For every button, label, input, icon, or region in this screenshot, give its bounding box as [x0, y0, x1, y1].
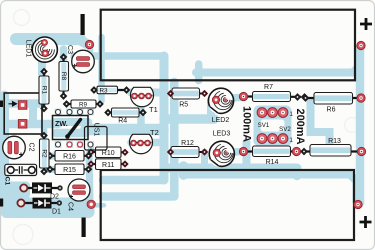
switch ZW lever — [68, 120, 81, 137]
resistor R9 — [63, 100, 104, 109]
wire central vertical — [160, 56, 169, 180]
wire ZW upper inner band — [55, 118, 88, 126]
svg-text:R4: R4 — [118, 118, 127, 125]
wire LED1 to R1 — [38, 54, 46, 74]
svg-text:ZW.: ZW. — [55, 119, 68, 128]
resistor R14 — [239, 146, 300, 166]
resistor R10 — [87, 147, 128, 158]
capacitor C3 — [72, 50, 95, 73]
connector X1 pad 2 — [18, 120, 27, 129]
wire ZW lower inner band — [56, 129, 86, 138]
svg-text:LED3: LED3 — [213, 131, 231, 138]
wire LED2 to R7 — [222, 97, 244, 99]
svg-text:R16: R16 — [63, 154, 76, 161]
capacitor C2 — [3, 136, 26, 159]
wire connector upper band — [8, 99, 42, 108]
resistor R12 — [167, 140, 208, 158]
relay K2 outline (bottom) — [101, 170, 354, 240]
watermark circle bottom-left — [13, 225, 33, 245]
svg-text:R2: R2 — [41, 149, 48, 158]
relay K1 outline (top) — [101, 10, 355, 81]
capacitor C4 — [68, 179, 90, 201]
diode D1 — [17, 198, 62, 209]
wire R6 branch down to R13 — [311, 101, 330, 147]
pad top right (plus) — [357, 41, 365, 49]
wire loop B in bottom relay — [103, 192, 172, 201]
resistor R3 — [90, 86, 130, 94]
wire R10 left stub — [88, 145, 94, 153]
resistor R7 — [239, 84, 308, 101]
svg-text:R14: R14 — [266, 159, 279, 166]
svg-text:LED1: LED1 — [25, 40, 32, 58]
wire top relay left edge stub — [90, 37, 102, 101]
diode D2 — [20, 182, 63, 193]
svg-text:R3: R3 — [99, 87, 108, 94]
resistor R1 (vertical) — [39, 68, 49, 113]
watermark circle top-left — [14, 10, 30, 26]
plus sign top right — [360, 18, 372, 30]
wire R2 top stub — [41, 124, 48, 136]
jumper bar bottom — [82, 218, 86, 238]
resistor R11 — [87, 159, 128, 170]
wire mid horizontal band — [164, 164, 297, 173]
svg-text:R7: R7 — [264, 84, 273, 91]
wire T1 stub — [131, 89, 162, 97]
connector X1 arrow — [9, 102, 17, 106]
wire ZW crossing band — [86, 124, 163, 136]
svg-text:LED2: LED2 — [212, 117, 230, 124]
wire bottom-left copper blob upper — [1, 182, 31, 199]
wire bottom band corner down — [350, 175, 357, 203]
pad bottom right (plus) — [354, 200, 362, 208]
svg-text:T2: T2 — [150, 128, 159, 137]
svg-text:US1: US1 — [93, 123, 100, 137]
SV copper block — [254, 106, 292, 147]
jumper bar top — [81, 14, 85, 35]
switch ZW bottom pins — [56, 142, 61, 147]
wire vertical from top relay to divider — [195, 64, 203, 81]
capacitor C1 — [5, 164, 37, 175]
wire connector lower band — [8, 120, 58, 129]
watermark circle right-middle — [345, 118, 360, 133]
resistor R16 — [46, 151, 92, 162]
pad right of C4 — [87, 200, 95, 208]
resistor R6 — [302, 93, 366, 114]
connector X1 pad 1 — [18, 101, 27, 110]
wire connector inner vertical — [29, 104, 37, 124]
ZW top pin pads copper squares — [55, 109, 94, 148]
svg-text:R9: R9 — [79, 102, 88, 109]
wire branch into bottom relay — [293, 168, 302, 176]
resistor R5 — [167, 88, 208, 109]
wire left edge vertical band — [0, 95, 9, 205]
header SV1 pads — [257, 108, 267, 118]
wire R8 top stub — [60, 49, 68, 60]
transistor T2 — [130, 134, 153, 153]
pad above C3 — [85, 40, 93, 48]
transistor T1 — [131, 87, 154, 106]
LED2 — [208, 88, 233, 113]
resistor R2 (vertical) — [40, 132, 50, 176]
left edge tick lower — [0, 199, 3, 207]
svg-text:C3: C3 — [66, 45, 73, 54]
svg-text:100mA: 100mA — [240, 106, 252, 142]
svg-text:200mA: 200mA — [294, 108, 306, 144]
svg-text:C4: C4 — [67, 202, 74, 211]
wire loop A in bottom relay — [103, 176, 164, 185]
wire V2 branch — [170, 82, 179, 197]
svg-text:R12: R12 — [181, 140, 194, 147]
resistor R13 — [300, 138, 366, 156]
svg-text:R11: R11 — [102, 162, 114, 169]
LED1 — [32, 37, 57, 62]
resistor R8 (vertical) — [59, 53, 69, 100]
wire C3 to top relay band — [74, 52, 163, 60]
wire bottom relay top band — [184, 171, 351, 179]
resistor R4 — [104, 108, 147, 125]
wire SV vertical feed — [243, 143, 251, 171]
svg-text:C1: C1 — [4, 176, 11, 185]
wire pad stub into bottom relay — [93, 203, 104, 208]
connector X1 outline — [4, 93, 42, 134]
wire R15 left stub — [46, 166, 56, 173]
svg-text:R5: R5 — [179, 102, 188, 109]
LED3 — [209, 141, 234, 166]
wire top relay right band — [196, 69, 353, 77]
IC US1 outline — [85, 127, 108, 151]
svg-text:R6: R6 — [327, 106, 336, 113]
left edge tick upper — [0, 101, 3, 108]
switch ZW outline — [53, 116, 89, 140]
svg-text:R1: R1 — [40, 86, 47, 95]
svg-text:T1: T1 — [149, 105, 158, 114]
svg-text:SV1: SV1 — [258, 122, 270, 129]
wire R12 right stub — [201, 152, 208, 166]
resistor R15 — [46, 164, 92, 175]
wire LED3 to R14 — [224, 152, 243, 153]
wire LED divider band — [164, 114, 214, 124]
wire right edge vertical band — [356, 47, 365, 203]
svg-text:R15: R15 — [63, 167, 76, 174]
wire bottom-left copper blob lower — [1, 198, 95, 219]
svg-text:SV2: SV2 — [279, 126, 291, 133]
wire R16 left stub — [46, 153, 56, 160]
wire LED2 pad stub down — [207, 100, 215, 120]
wire T1 to T2 vertical — [137, 93, 145, 143]
plus sign bottom right — [360, 216, 372, 228]
wire T2 stub — [131, 139, 162, 147]
svg-text:C2: C2 — [28, 143, 35, 152]
switch ZW top pins — [56, 110, 94, 115]
wire right band corner up — [353, 66, 360, 73]
wire V3 branch — [179, 166, 189, 175]
wire top-left band — [16, 33, 80, 45]
svg-text:R8: R8 — [60, 72, 67, 81]
header SV2 pads — [257, 134, 267, 144]
svg-text:R13: R13 — [328, 138, 341, 145]
wire top band corner to pad — [78, 39, 87, 44]
svg-text:R10: R10 — [102, 150, 115, 157]
wire right of R15 vertical — [89, 154, 90, 199]
svg-text:D1: D1 — [52, 209, 61, 216]
